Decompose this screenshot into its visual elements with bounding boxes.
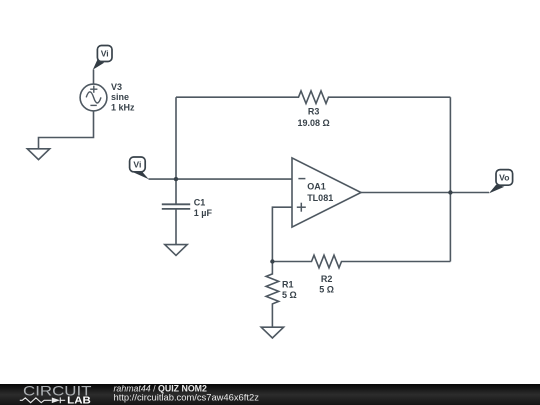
svg-text:1 kHz: 1 kHz <box>111 103 135 113</box>
svg-text:1 µF: 1 µF <box>194 208 213 218</box>
svg-text:sine: sine <box>111 92 129 102</box>
svg-text:TL081: TL081 <box>307 193 333 203</box>
svg-text:http://circuitlab.com/cs7aw46x: http://circuitlab.com/cs7aw46x6ft2z <box>114 392 260 403</box>
svg-text:5 Ω: 5 Ω <box>282 290 297 300</box>
svg-text:Vi: Vi <box>133 159 141 169</box>
svg-text:OA1: OA1 <box>307 182 326 192</box>
svg-text:V3: V3 <box>111 82 122 92</box>
svg-text:5 Ω: 5 Ω <box>319 284 334 294</box>
svg-text:Vi: Vi <box>101 48 109 58</box>
svg-text:Vo: Vo <box>499 172 509 182</box>
svg-text:R3: R3 <box>308 107 320 117</box>
svg-text:R1: R1 <box>282 279 294 289</box>
svg-text:R2: R2 <box>321 274 333 284</box>
svg-text:LAB: LAB <box>67 396 91 405</box>
svg-text:C1: C1 <box>194 198 206 208</box>
svg-text:19.08 Ω: 19.08 Ω <box>297 118 329 128</box>
